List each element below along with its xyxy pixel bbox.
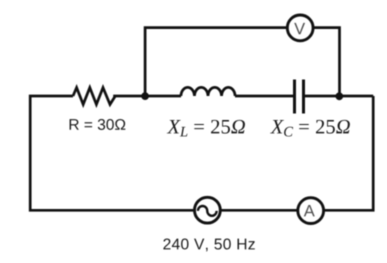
label: 240 V, 50 Hz xyxy=(163,239,254,252)
ammeter A (circle) xyxy=(298,198,324,224)
label: XL = 25Ω xyxy=(167,120,245,137)
wire: resistor to inductor (through node) xyxy=(113,95,181,98)
wire: left side and bottom-left of main loop xyxy=(30,96,194,210)
wire: capacitor to top-right corner (through node) xyxy=(305,95,373,98)
wire: voltmeter branch, right (across and down to node) xyxy=(313,28,339,93)
capacitor C1 (left plate) xyxy=(293,80,296,114)
ammeter letter A xyxy=(304,205,315,216)
ac source sine symbol xyxy=(198,206,217,216)
voltmeter letter V xyxy=(294,23,305,34)
capacitor C1 (right plate) xyxy=(302,80,305,114)
node: junction of R, L and voltmeter branch xyxy=(141,92,149,100)
label: R = 30Ω xyxy=(70,119,126,130)
ac source (circle) xyxy=(195,197,221,223)
wire: voltmeter branch, left (node up and across) xyxy=(145,28,287,96)
wire: inductor to capacitor xyxy=(235,95,293,98)
label: XC = 25Ω xyxy=(270,120,350,137)
resistor R1 xyxy=(73,88,115,105)
wire: right side of main loop xyxy=(325,96,374,210)
node: junction of C and voltmeter branch xyxy=(335,92,343,100)
voltmeter V (circle) xyxy=(287,15,313,41)
inductor L1 xyxy=(181,87,235,96)
wire: source to ammeter xyxy=(221,209,297,212)
